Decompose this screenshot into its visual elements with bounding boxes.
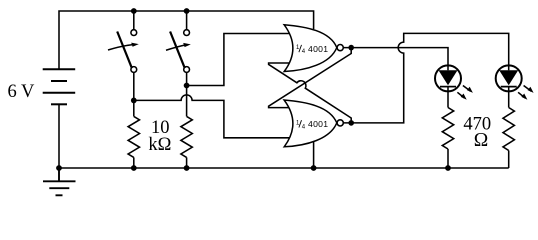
wire U1b ground stub [313,140,315,168]
battery B1 [43,69,75,104]
wire U1b output to LED2 (hop over LED1 wire) [343,33,508,123]
wire switch SW2 bottom through node to resistor R2 [186,72,188,116]
junction node dots [56,8,451,171]
wire switch SW1 bottom to node [133,72,135,116]
wire feedback from U1b output to U1a lower input (hop over other diagonal) [269,63,352,123]
switch SW1 [108,30,139,73]
LED D1 [435,65,473,107]
wire U1a output to LED1 [343,48,448,66]
wire R3 bottom [447,149,449,168]
svg-text:4001: 4001 [308,119,328,129]
resistor R4 470 Ohm [503,108,514,151]
label 1/4 4001 on U1a [296,44,328,55]
svg-text:6 V: 6 V [8,82,36,102]
wire R1 bottom [133,157,135,168]
ground [43,168,76,195]
svg-text:Ω: Ω [474,130,489,151]
resistor R2 10 kOhm [181,116,192,157]
wire switch SW1 top drop [133,11,135,30]
wire SW1 node to bottom gate lower input (hop over SW2 wire) [134,95,292,138]
wire R4 bottom [508,151,510,169]
wire switch SW2 top drop [186,11,188,30]
label 1/4 4001 on U1b [296,119,328,130]
wire R2 bottom [186,157,188,168]
wire feedback from U1a output to U1b upper input [269,48,352,108]
wire battery negative to bottom rail [58,104,60,168]
resistor R1 10 kOhm [128,116,139,157]
svg-text:4001: 4001 [308,44,328,54]
wire top rail from battery to gate supply corner [59,11,314,69]
switch SW2 [166,30,191,73]
wire bottom rail [59,167,509,169]
LED D2 [496,65,534,107]
svg-text:kΩ: kΩ [148,135,171,155]
NOR gate U1b [284,100,337,147]
wire SW2 node to top gate upper input [187,34,291,86]
resistor R3 470 Ohm [442,108,453,150]
NOR gate U1a [284,25,337,72]
